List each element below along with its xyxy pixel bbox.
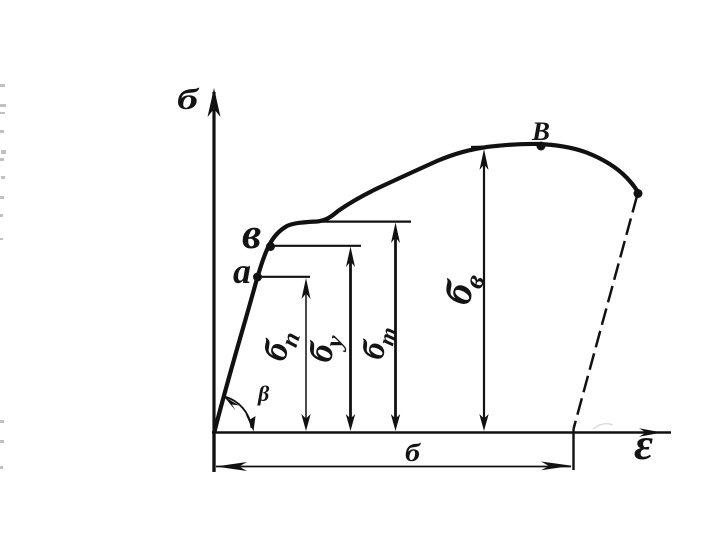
svg-text:в: в [242, 211, 261, 258]
x-axis arrowhead [639, 428, 662, 437]
tick at top of sigma_v arrow [471, 145, 498, 148]
stress-strain curve [215, 144, 639, 432]
scan artifacts left edge [0, 84, 6, 469]
x-axis (epsilon axis) [212, 431, 671, 434]
horizontal level line from point v (sigma_y level) [270, 245, 361, 247]
beta arc arrowhead top [224, 396, 240, 411]
y-axis (sigma axis) [212, 92, 215, 471]
y-axis arrowhead [208, 88, 221, 117]
svg-text:В: В [531, 117, 550, 146]
faint scan smudge near dashed line foot [593, 424, 613, 429]
delta left arrowhead [216, 462, 248, 471]
point v dot [266, 242, 275, 251]
svg-text:б: б [177, 83, 199, 116]
beta arc arrowhead bottom [246, 414, 256, 432]
delta right arrowhead [541, 462, 572, 471]
extension line below origin [212, 432, 215, 472]
extension line at rupture strain [572, 429, 574, 470]
svg-text:б: б [405, 440, 422, 467]
sigma_p dimension arrow (vertical, double head) [301, 278, 310, 431]
sigma_y dimension arrow [346, 247, 355, 432]
angle beta arc [225, 397, 252, 429]
sigma_v dimension arrow [479, 149, 488, 431]
dashed unloading line [574, 196, 638, 429]
svg-text:ε: ε [634, 420, 653, 469]
rupture point dot [634, 189, 643, 198]
point a dot [253, 273, 262, 282]
delta dimension line [216, 466, 571, 468]
point B (max) dot [537, 142, 546, 151]
svg-text:β: β [257, 381, 270, 406]
horizontal level line sigma_t [315, 221, 411, 223]
sigma_t dimension arrow [391, 223, 400, 432]
horizontal level line from point a (sigma_p level) [258, 276, 310, 278]
